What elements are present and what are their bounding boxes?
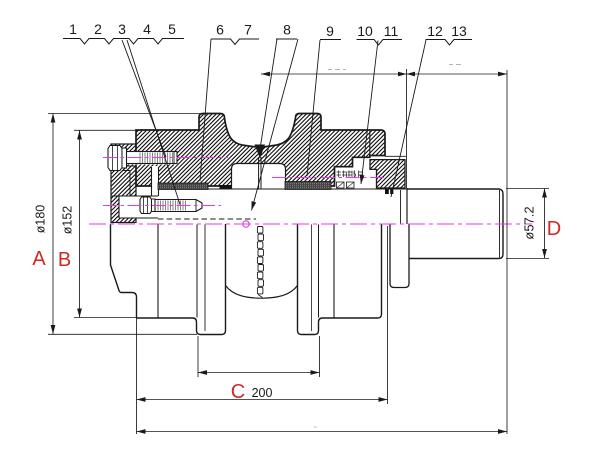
callout underline 8	[276, 38, 297, 40]
white cut: bolt1 shaft band	[124, 151, 177, 165]
white cut: slot between bracket and hub	[152, 166, 159, 187]
svg-text:3: 3	[118, 21, 126, 37]
svg-text:C: C	[231, 381, 245, 403]
bottom exterior view: drum + rims + tread curve	[137, 224, 226, 335]
callout underline group 1-5	[63, 39, 184, 45]
seal rings in pocket	[337, 182, 355, 188]
dim D	[544, 189, 546, 259]
pocket edges	[119, 196, 158, 218]
svg-text:ø180: ø180	[34, 205, 48, 234]
bracket (left mounting collar) hatched section	[111, 144, 136, 223]
svg-text:200: 200	[252, 386, 273, 400]
shaft top hidden edge	[158, 188, 407, 190]
svg-text:ø57.2: ø57.2	[522, 206, 537, 239]
o-ring seals on shaft	[385, 189, 389, 194]
svg-text:7: 7	[244, 22, 252, 38]
dim bottom overall	[137, 431, 508, 433]
bracket internal step lines	[111, 130, 136, 196]
callout underline 9	[320, 39, 341, 41]
DIMENSIONS	[48, 69, 549, 434]
rim face edge lines bottom view	[196, 225, 198, 318]
seal ring text 浮封环8号 (tiny glyph marks)	[337, 171, 363, 178]
svg-text:2: 2	[94, 21, 102, 37]
oil hole circle	[243, 221, 249, 227]
leader part 8 to weld seam	[261, 39, 278, 146]
svg-text:12: 12	[427, 23, 443, 39]
svg-text:11: 11	[384, 23, 399, 39]
slot edges	[152, 167, 159, 196]
svg-text:10: 10	[357, 23, 373, 39]
callout underline group 10-11	[357, 40, 403, 46]
dim A	[52, 114, 54, 335]
leader part 9 to shell	[307, 40, 320, 176]
dim top chained	[261, 73, 507, 75]
bore step block	[220, 185, 232, 189]
callout underline group 12-13	[426, 40, 473, 46]
central oil cavity (white)	[232, 164, 286, 190]
svg-text:B: B	[58, 249, 71, 271]
svg-text:8: 8	[283, 22, 291, 38]
bushing knurl band right	[285, 182, 331, 190]
shaft outline	[407, 188, 503, 259]
dim C	[137, 399, 388, 401]
weld V arrow (leader 8a tip)	[255, 145, 266, 159]
callout underline group 6-7	[211, 39, 259, 45]
faint erased marks	[314, 65, 461, 428]
weld seam double line	[259, 157, 261, 189]
leader parts 10-11 to floating seal	[361, 41, 378, 185]
svg-text:ø152: ø152	[61, 206, 75, 235]
rim chamfer contour lines	[204, 225, 206, 332]
roller body upper half section	[136, 114, 385, 187]
white cut: lower bolt recess pocket	[119, 196, 158, 218]
hex bolt 2 (lower)	[140, 197, 202, 214]
leader part 3 to lower bolt	[127, 40, 180, 205]
hex bolt 1 (upper)	[108, 146, 177, 171]
svg-text:5: 5	[168, 21, 176, 37]
leader part 8 to oil hole	[252, 39, 299, 211]
svg-text:9: 9	[326, 23, 334, 39]
hub end contour lines bottom view	[157, 224, 159, 318]
svg-text:1: 1	[69, 21, 77, 37]
bottom exterior view: bracket	[111, 224, 137, 318]
svg-text:6: 6	[216, 22, 224, 38]
tread contour curve	[226, 286, 298, 299]
svg-text:4: 4	[143, 21, 151, 37]
seal collar (right) hatched section	[370, 131, 406, 188]
dim B	[79, 131, 81, 318]
weld chain below center	[257, 227, 263, 298]
leader part 3 to upper bolt	[122, 40, 166, 157]
svg-text:A: A	[32, 248, 46, 270]
leader parts 12-13 to collar seal	[391, 40, 426, 197]
bushing knurl band left	[158, 183, 208, 190]
dim inner rims	[198, 372, 320, 374]
svg-text:D: D	[547, 218, 561, 240]
hidden oil passage dashed	[158, 218, 256, 220]
centerlines magenta	[89, 158, 532, 225]
collar bottom exterior	[390, 224, 409, 288]
leader parts 6-7 to hub	[200, 39, 211, 181]
svg-text:13: 13	[451, 23, 467, 39]
